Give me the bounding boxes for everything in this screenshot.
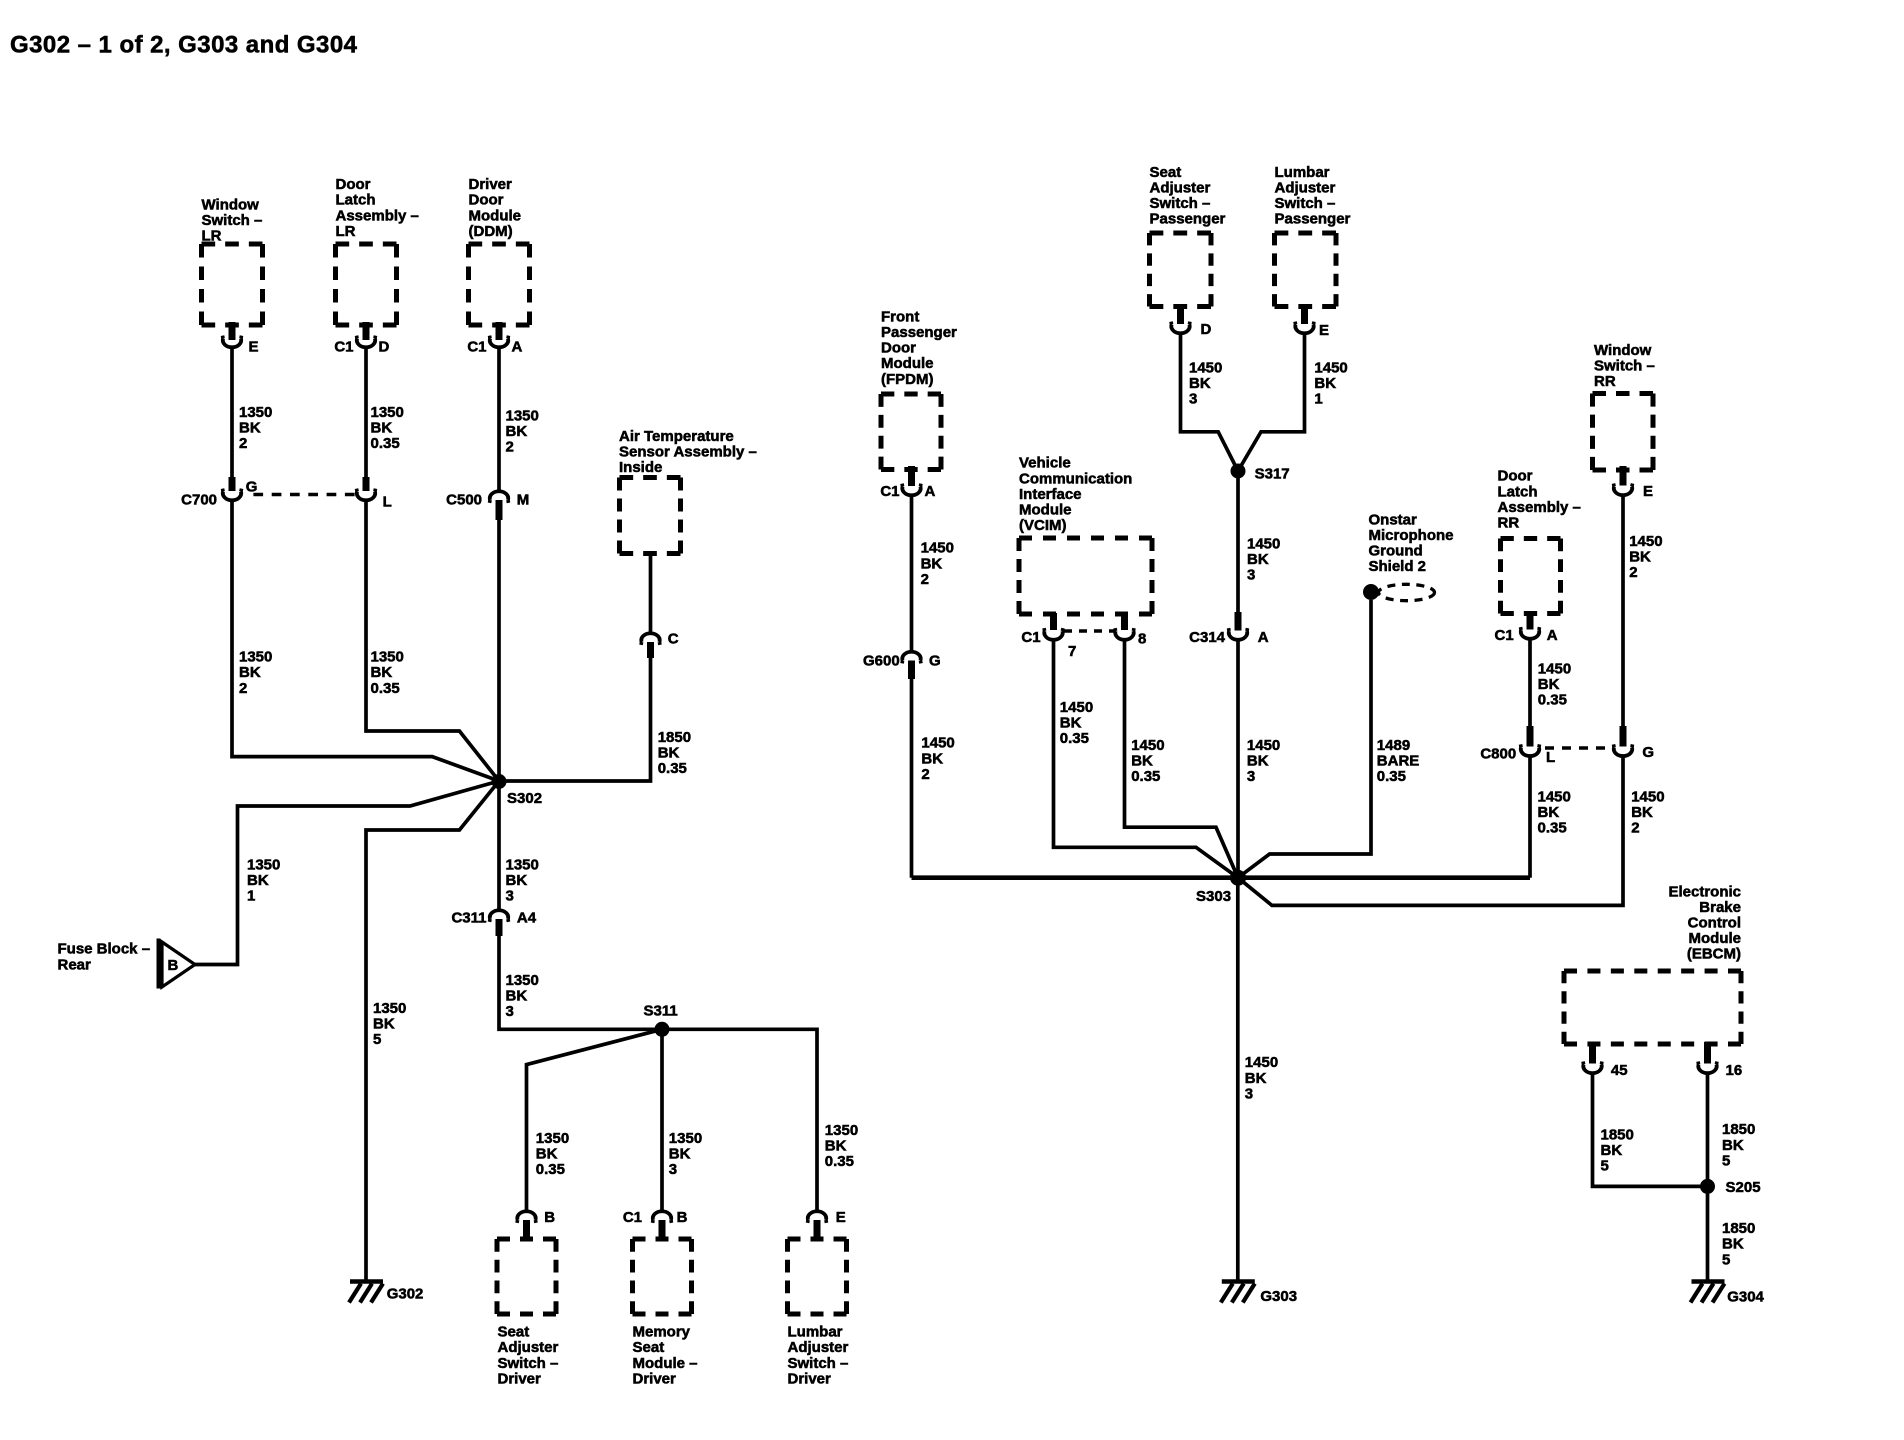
svg-text:Door: Door — [881, 340, 916, 357]
connector G window RR — [1614, 726, 1655, 761]
svg-text:1450: 1450 — [1189, 359, 1222, 376]
svg-text:G304: G304 — [1727, 1289, 1764, 1306]
svg-text:G: G — [1642, 744, 1654, 761]
svg-text:1350: 1350 — [506, 972, 539, 989]
svg-text:Module: Module — [1019, 502, 1072, 519]
door latch LR pin stub — [363, 322, 370, 340]
splice S311 — [644, 1003, 678, 1037]
onstar shield dashed loop — [1379, 584, 1435, 600]
vehicle communication interface module box — [1019, 538, 1152, 614]
svg-text:C700: C700 — [181, 492, 217, 509]
lumbar adjuster switch passenger label — [1275, 164, 1351, 228]
lumbar adj passenger pin stub — [1301, 305, 1308, 325]
svg-text:B: B — [677, 1209, 688, 1226]
wire 1850 BK 5 from S205 to G304 — [1706, 1186, 1710, 1281]
svg-text:C1: C1 — [623, 1209, 642, 1226]
svg-text:5: 5 — [1722, 1251, 1730, 1268]
svg-text:2: 2 — [506, 439, 514, 456]
wire 1450 BK 3 from S317 to C314 — [1236, 471, 1240, 612]
svg-text:BK: BK — [825, 1138, 847, 1155]
svg-text:C1: C1 — [1021, 629, 1040, 646]
DDM pin stub — [496, 322, 503, 340]
FPDM pin stub — [908, 466, 915, 486]
svg-text:Passenger: Passenger — [881, 324, 957, 341]
svg-text:Interface: Interface — [1019, 486, 1082, 503]
svg-text:1350: 1350 — [506, 408, 539, 425]
svg-text:Switch –: Switch – — [498, 1355, 559, 1372]
svg-text:C314: C314 — [1189, 629, 1226, 646]
label 1850 BK 5 pin45 — [1601, 1126, 1634, 1174]
VCIM pin 8 stub — [1121, 613, 1128, 630]
svg-text:Passenger: Passenger — [1150, 211, 1226, 228]
splice S303 — [1196, 870, 1246, 905]
svg-text:Window: Window — [1594, 342, 1652, 359]
svg-text:D: D — [1201, 321, 1212, 338]
svg-text:BK: BK — [371, 664, 393, 681]
svg-text:Latch: Latch — [1498, 483, 1538, 500]
label 1450 BK 2 lower — [921, 735, 954, 783]
seat adjuster switch passenger box — [1150, 233, 1212, 307]
svg-text:A: A — [512, 339, 523, 356]
svg-text:C: C — [668, 631, 679, 648]
svg-text:S317: S317 — [1255, 466, 1290, 483]
svg-text:0.35: 0.35 — [1131, 768, 1160, 785]
svg-text:S302: S302 — [507, 790, 542, 807]
label 1450 BK 1 — [1314, 359, 1347, 407]
svg-text:0.35: 0.35 — [371, 680, 400, 697]
wire 1350 BK 0.35 from D to L — [364, 348, 368, 478]
svg-text:0.35: 0.35 — [1060, 730, 1089, 747]
connector C700 G — [181, 477, 257, 509]
svg-text:BK: BK — [506, 988, 528, 1005]
connector pin E lumbar adjuster — [808, 1209, 846, 1239]
wire 1350 BK 2 from A to C500 — [497, 348, 501, 492]
wire 1350 BK 5 from S302 to G302 — [366, 781, 499, 1282]
svg-text:1450: 1450 — [1538, 788, 1571, 805]
svg-text:Onstar: Onstar — [1369, 511, 1418, 528]
connector pin 16 — [1698, 1062, 1742, 1080]
connector pin C1 B memory seat — [623, 1209, 688, 1239]
svg-text:Assembly –: Assembly – — [1498, 499, 1581, 516]
wire 1350 BK 2 from C500 to S302 — [497, 520, 501, 781]
svg-text:2: 2 — [1631, 820, 1639, 837]
svg-text:1350: 1350 — [536, 1130, 569, 1147]
wire 1350 BK 0.35 from S311 to seat adjuster — [527, 1029, 663, 1210]
svg-text:2: 2 — [239, 435, 247, 452]
connector pin E window switch RR — [1614, 483, 1654, 500]
window switch RR label — [1594, 342, 1655, 390]
svg-text:C500: C500 — [446, 492, 482, 509]
svg-text:Door: Door — [469, 192, 504, 209]
connector pin C1 7 — [1021, 628, 1076, 660]
wire 1450 BK 2 from E to G — [1621, 495, 1625, 726]
svg-text:BK: BK — [1722, 1236, 1744, 1253]
svg-text:Window: Window — [202, 196, 260, 213]
wire 1450 BK 1 from E to S317 — [1238, 333, 1305, 471]
connector C500 M — [446, 491, 529, 520]
svg-text:(VCIM): (VCIM) — [1019, 517, 1067, 534]
vehicle communication interface module label — [1019, 455, 1132, 534]
svg-text:Seat: Seat — [498, 1324, 530, 1341]
svg-text:G302: G302 — [387, 1286, 424, 1303]
label 1450 BK 3 mid — [1247, 737, 1280, 785]
window switch LR box — [202, 244, 263, 325]
wire 1450 BK 3 from S303 to G303 — [1236, 878, 1240, 1282]
svg-text:BK: BK — [669, 1145, 691, 1162]
svg-text:BK: BK — [1631, 804, 1653, 821]
wire 1850 BK 0.35 from C to S302 — [506, 658, 651, 781]
wire 1850 BK 5 from pin16 to S205 — [1706, 1073, 1710, 1186]
svg-text:BK: BK — [1247, 753, 1269, 770]
svg-text:0.35: 0.35 — [1538, 692, 1567, 709]
svg-text:Rear: Rear — [58, 957, 92, 974]
seat adj passenger pin stub — [1177, 305, 1184, 325]
svg-text:Vehicle: Vehicle — [1019, 455, 1071, 472]
ground G302 — [349, 1282, 423, 1303]
svg-text:BK: BK — [373, 1016, 395, 1033]
svg-text:0.35: 0.35 — [825, 1153, 854, 1170]
svg-text:1450: 1450 — [1629, 533, 1662, 550]
label 1350 BK 5 — [373, 1000, 406, 1048]
label 1450 BK 0.35 pin8 — [1131, 737, 1164, 785]
svg-text:G302 – 1 of 2, G303 and G304: G302 – 1 of 2, G303 and G304 — [10, 32, 358, 59]
connector C311 A4 — [451, 910, 536, 937]
label 1350 BK 0.35 lower — [371, 649, 404, 697]
wire 1850 BK 5 from pin45 to S205 — [1593, 1073, 1703, 1186]
svg-text:3: 3 — [1247, 768, 1255, 785]
svg-text:2: 2 — [921, 571, 929, 588]
svg-text:45: 45 — [1611, 1062, 1628, 1079]
connector pin D — [1171, 321, 1212, 338]
wire 1450 BK 3 from D to S317 — [1181, 333, 1239, 471]
svg-text:G303: G303 — [1260, 1288, 1297, 1305]
label 1450 BK 2 window RR — [1629, 533, 1662, 581]
door latch assembly RR box — [1501, 539, 1561, 614]
svg-text:(DDM): (DDM) — [469, 223, 513, 240]
svg-text:C1: C1 — [467, 339, 486, 356]
svg-text:3: 3 — [1247, 567, 1255, 584]
label 1350 BK 1 — [247, 857, 280, 905]
label 1450 BK 3 seat adj — [1189, 359, 1222, 407]
svg-text:RR: RR — [1594, 373, 1616, 390]
wire from air temp sensor to C — [649, 554, 653, 634]
svg-text:Control: Control — [1688, 915, 1741, 932]
svg-text:3: 3 — [1189, 391, 1197, 408]
dashed link C800 L to G — [1545, 746, 1605, 749]
svg-text:1450: 1450 — [921, 540, 954, 557]
svg-text:1450: 1450 — [1247, 536, 1280, 553]
label 1450 BK 0.35 C800 — [1538, 788, 1571, 836]
svg-text:BK: BK — [658, 745, 680, 762]
svg-text:Fuse Block –: Fuse Block – — [58, 941, 151, 958]
svg-text:1450: 1450 — [1247, 737, 1280, 754]
svg-text:C800: C800 — [1480, 746, 1516, 763]
svg-text:S311: S311 — [644, 1003, 678, 1020]
svg-text:Front: Front — [881, 308, 919, 325]
svg-text:L: L — [1546, 749, 1555, 766]
svg-text:BK: BK — [1060, 715, 1082, 732]
connector pin 45 — [1583, 1062, 1628, 1080]
door latch assembly LR box — [336, 244, 397, 325]
wire 1450 BK 0.35 from pin8 to S303 — [1125, 640, 1239, 878]
connector pin C1 A — [467, 336, 522, 356]
dashed link C700 to L — [253, 493, 354, 496]
wire 1350 BK 3 from S311 to memory seat — [660, 1029, 664, 1210]
svg-text:1350: 1350 — [247, 857, 280, 874]
svg-text:Module: Module — [469, 207, 522, 224]
svg-text:3: 3 — [506, 888, 514, 905]
svg-text:Adjuster: Adjuster — [1150, 179, 1211, 196]
svg-text:0.35: 0.35 — [1377, 768, 1406, 785]
svg-text:Electronic: Electronic — [1668, 883, 1741, 900]
connector pin B seat adjuster — [517, 1209, 555, 1239]
label 1350 BK 3 — [506, 857, 539, 905]
svg-text:S303: S303 — [1196, 888, 1231, 905]
label 1450 BK 2 G — [1631, 788, 1664, 836]
svg-text:C1: C1 — [1495, 627, 1514, 644]
svg-text:Adjuster: Adjuster — [788, 1339, 849, 1356]
svg-text:B: B — [168, 957, 179, 974]
svg-text:1450: 1450 — [1060, 699, 1093, 716]
svg-text:BK: BK — [247, 872, 269, 889]
connector pin C1 A FPDM — [880, 483, 935, 500]
svg-text:Switch –: Switch – — [202, 212, 263, 229]
svg-text:A: A — [1547, 627, 1558, 644]
svg-text:1450: 1450 — [1631, 788, 1664, 805]
wire 1350 BK 2 from E to C700 — [230, 348, 234, 478]
fuse block rear label — [58, 941, 151, 974]
title text — [10, 32, 358, 59]
svg-text:L: L — [383, 494, 392, 511]
label 1350 BK 3 memory — [669, 1130, 702, 1178]
wire 1350 BK 0.35 from S311 to lumbar adjuster — [662, 1029, 817, 1210]
svg-text:Switch –: Switch – — [1594, 358, 1655, 375]
svg-text:5: 5 — [1722, 1152, 1730, 1169]
label 1450 BK 0.35 pin7 — [1060, 699, 1093, 747]
label 1850 BK 5 ground — [1722, 1220, 1755, 1268]
svg-text:Shield 2: Shield 2 — [1369, 558, 1427, 575]
window switch RR box — [1593, 394, 1654, 471]
svg-text:E: E — [836, 1209, 846, 1226]
svg-text:1350: 1350 — [373, 1000, 406, 1017]
svg-text:Module: Module — [881, 355, 934, 372]
electronic brake control module label — [1668, 883, 1741, 962]
svg-text:1350: 1350 — [239, 404, 272, 421]
svg-text:Switch –: Switch – — [788, 1355, 849, 1372]
svg-text:2: 2 — [1629, 564, 1637, 581]
wire 1350 BK 2 from C700 to S302 — [232, 501, 499, 782]
label 1850 BK 5 pin16 — [1722, 1121, 1755, 1169]
dashed link pin7 to pin8 — [1064, 629, 1114, 632]
svg-text:2: 2 — [239, 680, 247, 697]
svg-text:A: A — [1258, 629, 1269, 646]
connector pin C1 A door latch RR — [1495, 627, 1558, 644]
svg-text:Communication: Communication — [1019, 470, 1132, 487]
svg-text:2: 2 — [921, 766, 929, 783]
svg-text:3: 3 — [506, 1003, 514, 1020]
label 1350 BK 0.35 seat — [536, 1130, 569, 1178]
label 1450 BK 0.35 door latch RR — [1538, 660, 1571, 708]
svg-text:Memory: Memory — [633, 1324, 691, 1341]
svg-text:1450: 1450 — [1245, 1054, 1278, 1071]
wire 1450 BK 0.35 from C800 to S303 — [1528, 756, 1532, 878]
label 1450 BK 3 ground — [1245, 1054, 1278, 1102]
EBCM pin 16 stub — [1704, 1042, 1711, 1064]
svg-text:Driver: Driver — [498, 1370, 542, 1387]
svg-text:BK: BK — [1538, 804, 1560, 821]
svg-text:1850: 1850 — [1722, 1121, 1755, 1138]
svg-text:5: 5 — [373, 1031, 381, 1048]
connector pin E lumbar passenger — [1295, 322, 1329, 339]
splice S302 — [492, 774, 543, 807]
svg-text:LR: LR — [336, 223, 356, 240]
svg-text:16: 16 — [1726, 1062, 1743, 1079]
seat adjuster switch passenger label — [1150, 164, 1226, 228]
wire 1450 BK 0.35 from A to C800 — [1528, 639, 1532, 726]
svg-text:1350: 1350 — [371, 649, 404, 666]
svg-text:1850: 1850 — [1722, 1220, 1755, 1237]
svg-text:BK: BK — [1189, 375, 1211, 392]
svg-text:BK: BK — [506, 872, 528, 889]
driver door module DDM label — [469, 176, 522, 240]
svg-text:Door: Door — [1498, 468, 1533, 485]
EBCM pin 45 stub — [1589, 1042, 1596, 1064]
seat adjuster switch driver label — [498, 1324, 559, 1388]
label 1350 BK 0.35 — [371, 404, 404, 452]
label 1450 BK 3 upper — [1247, 536, 1280, 584]
svg-text:8: 8 — [1138, 631, 1146, 648]
svg-text:RR: RR — [1498, 515, 1520, 532]
label 1350 BK 0.35 lumbar — [825, 1122, 858, 1170]
svg-text:BK: BK — [371, 420, 393, 437]
svg-text:1: 1 — [1314, 391, 1322, 408]
svg-text:Module: Module — [1689, 930, 1742, 947]
svg-text:A: A — [925, 483, 936, 500]
svg-text:7: 7 — [1068, 643, 1076, 660]
svg-text:BK: BK — [1314, 375, 1336, 392]
svg-text:Latch: Latch — [336, 192, 376, 209]
door latch RR pin stub — [1527, 611, 1534, 630]
svg-text:Sensor Assembly –: Sensor Assembly – — [619, 444, 757, 461]
driver door module box — [469, 244, 530, 325]
svg-text:Microphone: Microphone — [1369, 527, 1454, 544]
svg-text:BK: BK — [239, 420, 261, 437]
svg-text:A4: A4 — [517, 910, 537, 927]
svg-text:Module –: Module – — [633, 1355, 698, 1372]
wire 1350 BK 1 from fuse block to S302 — [195, 781, 499, 965]
connector pin C — [641, 631, 679, 659]
svg-text:C1: C1 — [880, 483, 899, 500]
svg-text:1350: 1350 — [825, 1122, 858, 1139]
svg-text:1350: 1350 — [669, 1130, 702, 1147]
svg-text:Switch –: Switch – — [1275, 195, 1336, 212]
svg-text:Passenger: Passenger — [1275, 211, 1351, 228]
svg-text:BK: BK — [239, 664, 261, 681]
svg-text:BK: BK — [1247, 551, 1269, 568]
svg-text:E: E — [1319, 322, 1329, 339]
onstar shield terminal dot — [1363, 584, 1379, 600]
svg-text:BK: BK — [1629, 549, 1651, 566]
svg-text:Assembly –: Assembly – — [336, 207, 419, 224]
svg-text:Driver: Driver — [788, 1370, 832, 1387]
electronic brake control module box — [1564, 971, 1741, 1044]
svg-text:Door: Door — [336, 176, 371, 193]
svg-text:Seat: Seat — [1150, 164, 1182, 181]
label 1350 BK 2 DDM — [506, 408, 539, 456]
svg-text:D: D — [379, 339, 390, 356]
connector C314 A — [1189, 612, 1269, 646]
memory seat module driver label — [633, 1324, 698, 1388]
svg-text:Seat: Seat — [633, 1339, 665, 1356]
svg-text:BK: BK — [506, 423, 528, 440]
svg-text:BK: BK — [536, 1145, 558, 1162]
air temperature sensor box — [620, 478, 681, 554]
wire 1450 BK 2 from G600 to S303 — [910, 679, 914, 878]
onstar microphone ground shield 2 label — [1369, 511, 1454, 575]
svg-text:1350: 1350 — [506, 857, 539, 874]
svg-text:1850: 1850 — [658, 729, 691, 746]
svg-text:Inside: Inside — [619, 459, 662, 476]
VCIM pin 7 stub — [1050, 613, 1057, 630]
svg-text:3: 3 — [1245, 1085, 1253, 1102]
label 1350 BK 3 lower — [506, 972, 539, 1020]
svg-text:1450: 1450 — [921, 735, 954, 752]
air temperature sensor label — [619, 428, 757, 476]
svg-text:Driver: Driver — [469, 176, 513, 193]
front passenger door module box — [881, 394, 941, 470]
S303 bus wire — [912, 875, 1531, 880]
svg-text:1489: 1489 — [1377, 737, 1410, 754]
svg-text:1450: 1450 — [1538, 660, 1571, 677]
svg-text:M: M — [517, 492, 530, 509]
door latch assembly LR label — [336, 176, 419, 240]
svg-text:Air Temperature: Air Temperature — [619, 428, 734, 445]
svg-text:G600: G600 — [863, 653, 900, 670]
wire 1489 BARE 0.35 from shield to S303 — [1238, 600, 1371, 878]
ground G303 — [1221, 1282, 1297, 1306]
wire 1450 BK 3 from C314 to S303 — [1236, 640, 1240, 878]
svg-text:Switch –: Switch – — [1150, 195, 1211, 212]
svg-text:5: 5 — [1601, 1158, 1609, 1175]
svg-text:1850: 1850 — [1601, 1126, 1634, 1143]
label 1450 BK 2 FPDM — [921, 540, 954, 588]
memory seat module driver box — [633, 1239, 692, 1314]
svg-text:BK: BK — [921, 555, 943, 572]
svg-text:B: B — [544, 1209, 555, 1226]
wire 1350 BK 3 from S302 to C311 — [497, 781, 501, 910]
lumbar adjuster switch driver label — [788, 1324, 849, 1388]
svg-text:BK: BK — [1601, 1142, 1623, 1159]
svg-text:0.35: 0.35 — [536, 1161, 565, 1178]
splice S205 — [1700, 1179, 1761, 1196]
connector pin C1 D — [334, 336, 389, 356]
svg-text:0.35: 0.35 — [1538, 820, 1567, 837]
svg-text:0.35: 0.35 — [371, 435, 400, 452]
label 1350 BK 2 — [239, 404, 272, 452]
label 1850 BK 0.35 — [658, 729, 691, 777]
fuse block triangle B — [159, 939, 196, 989]
wire 1450 BK 2 from G to S303 — [1238, 756, 1623, 905]
svg-text:BK: BK — [921, 750, 943, 767]
svg-text:G: G — [929, 653, 941, 670]
svg-text:1450: 1450 — [1131, 737, 1164, 754]
connector pin 8 — [1115, 628, 1146, 648]
front passenger door module label — [881, 308, 957, 387]
svg-text:Lumbar: Lumbar — [1275, 164, 1330, 181]
svg-text:(FPDM): (FPDM) — [881, 371, 934, 388]
window switch RR pin stub — [1620, 466, 1627, 486]
svg-text:BARE: BARE — [1377, 753, 1420, 770]
